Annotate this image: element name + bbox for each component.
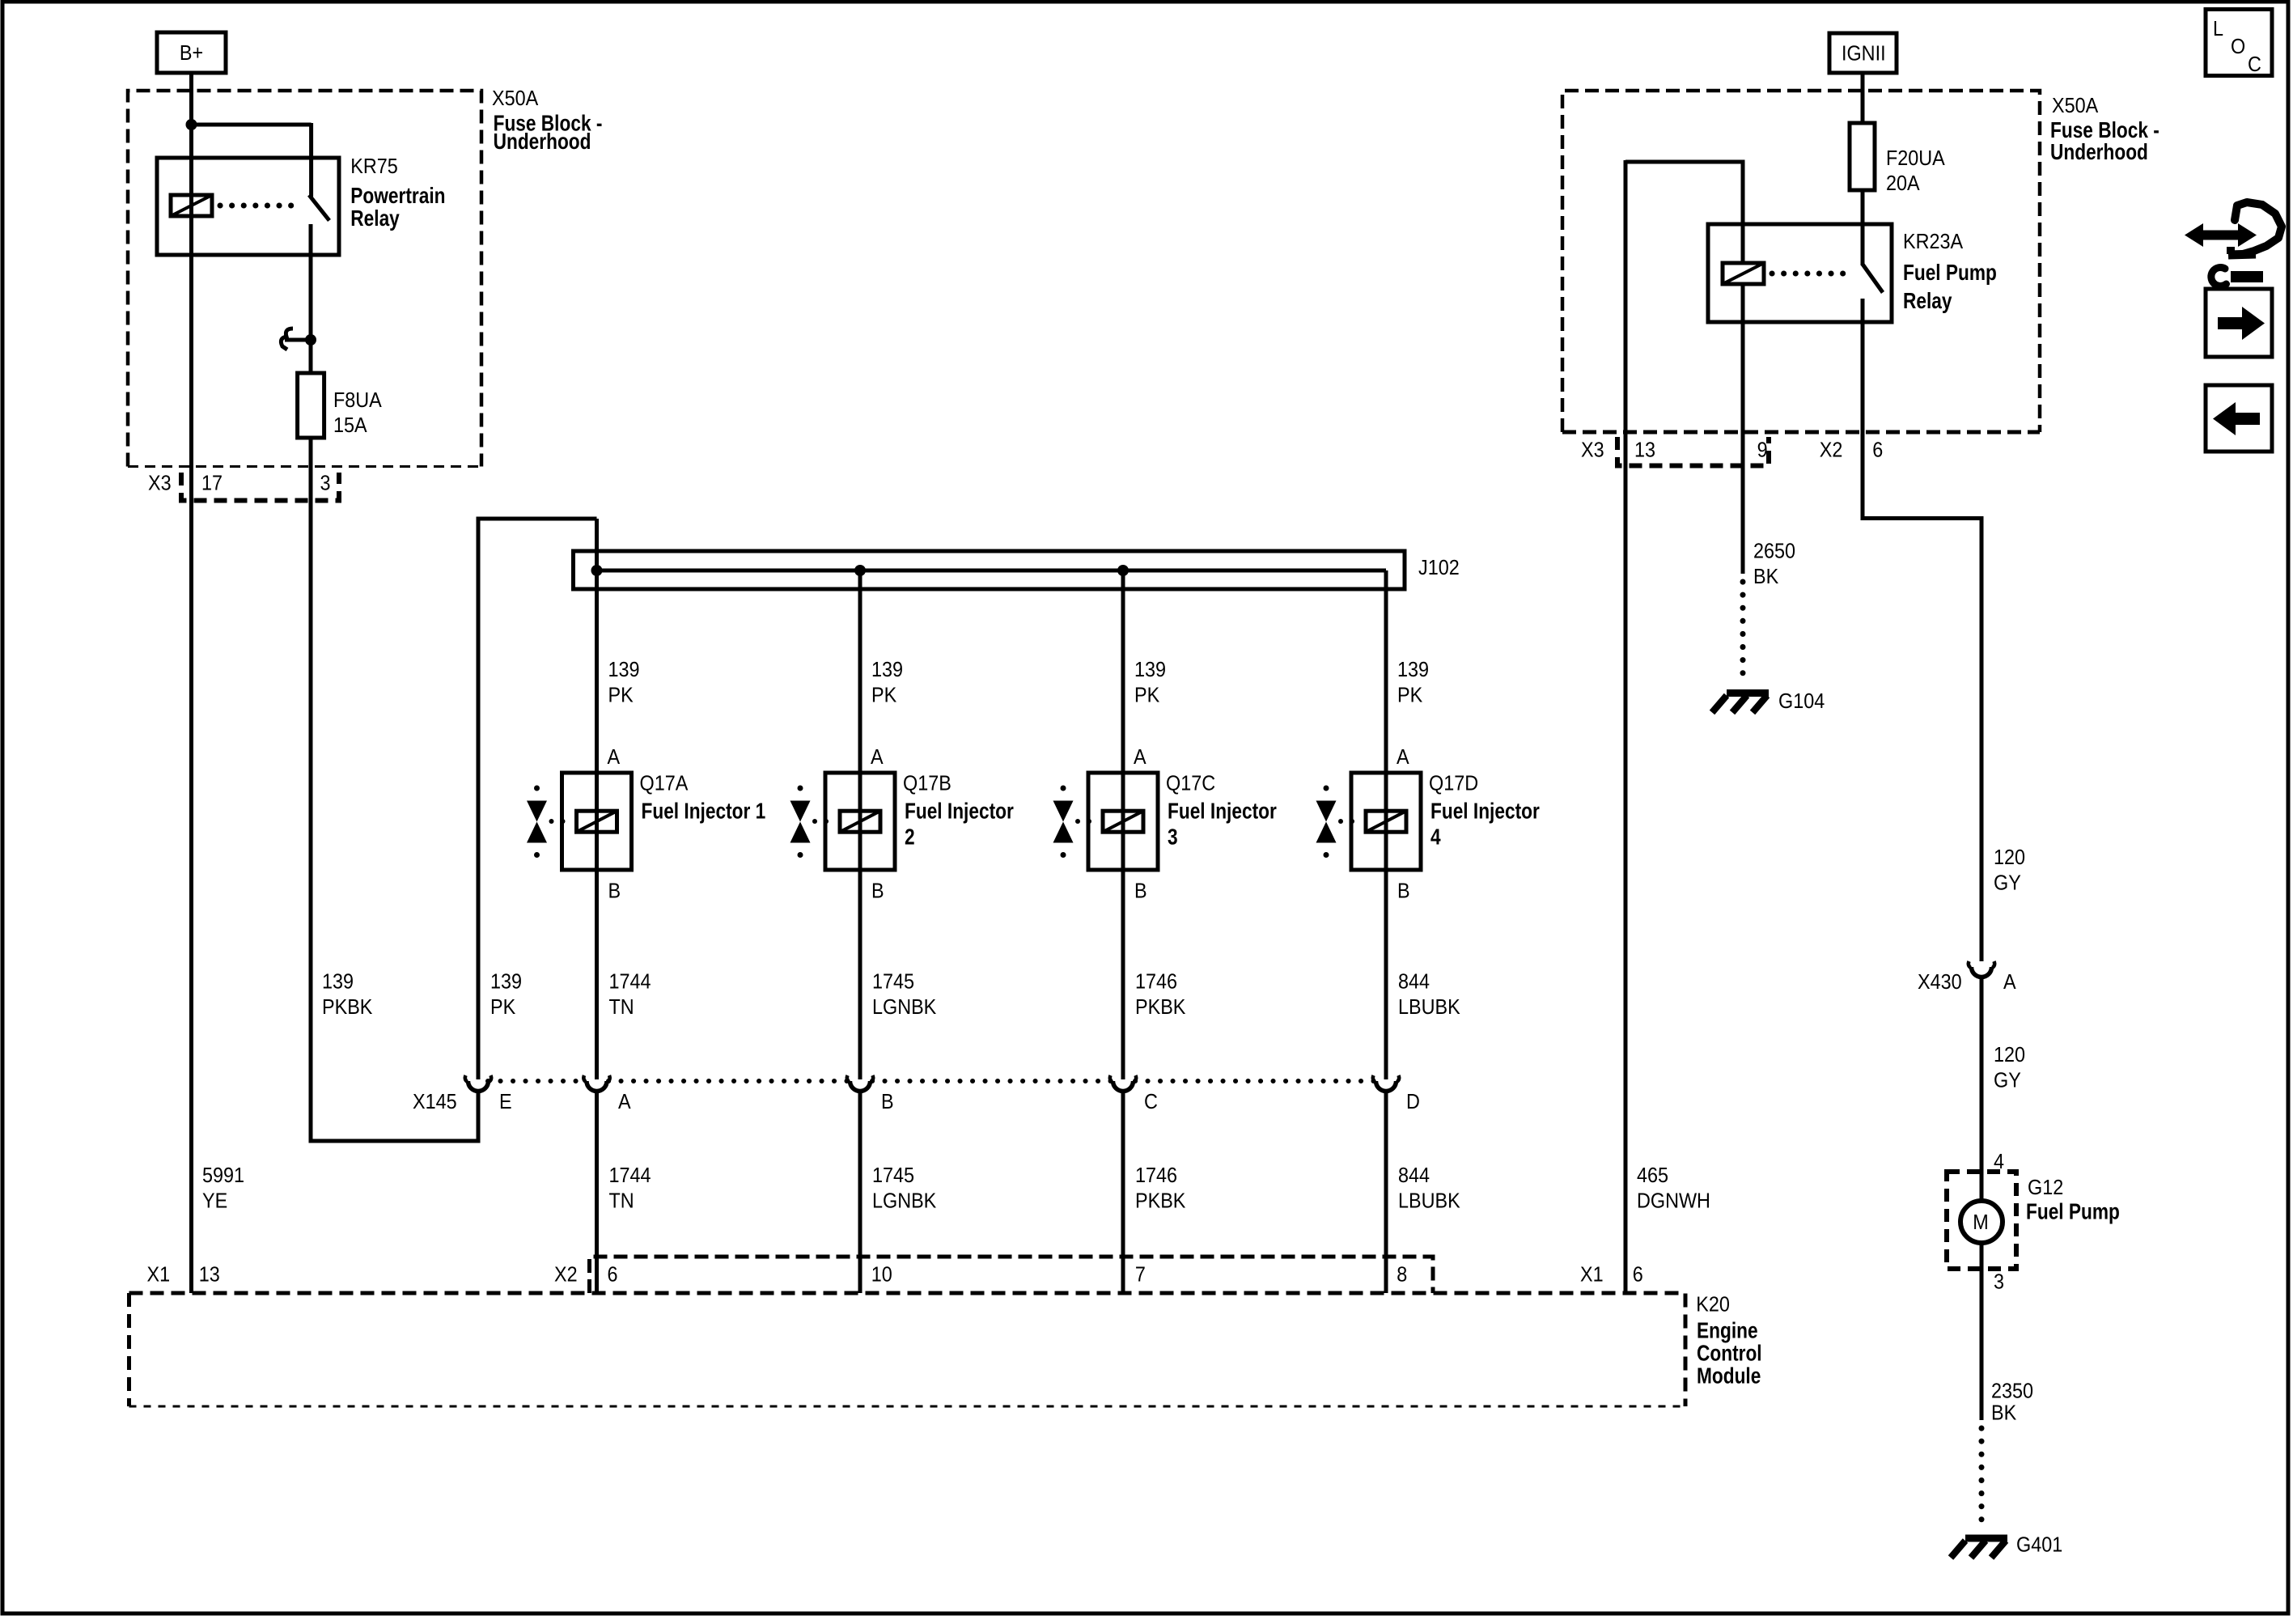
wire F8UA to jog [309, 438, 313, 1141]
injector Q17B dotted link [812, 819, 817, 824]
svg-text:F20UA: F20UA [1886, 147, 1945, 170]
svg-text:X2: X2 [1820, 439, 1843, 461]
connector X3 (right) dashed bracket [1617, 437, 1769, 466]
ECM X2 connector bracket [590, 1257, 1434, 1293]
svg-text:1744: 1744 [609, 1164, 651, 1187]
fuse F8UA [298, 373, 324, 438]
label 844 LBUBK (upper) [1398, 970, 1460, 1019]
svg-text:GY: GY [1994, 1069, 2021, 1092]
svg-text:B: B [608, 880, 621, 902]
wire riser into J102 and injector 1 feed [595, 519, 599, 773]
fuse F20UA [1850, 123, 1875, 190]
injector Q17B coil [840, 811, 880, 832]
svg-text:Q17D: Q17D [1429, 772, 1478, 795]
svg-text:O: O [2231, 36, 2245, 58]
svg-text:5991: 5991 [202, 1164, 244, 1187]
svg-text:9: 9 [1757, 439, 1768, 461]
svg-text:A: A [2003, 971, 2016, 994]
relay KR75 switch blade [309, 195, 329, 221]
svg-text:X3: X3 [148, 472, 172, 494]
wire injector 4 X145 to ECM [1384, 1091, 1388, 1293]
ECM K20 dashed box [129, 1293, 1686, 1406]
label 139 PK (riser) [490, 970, 522, 1019]
relay KR23A switch blade [1863, 265, 1883, 293]
wire injector 1 X145 to ECM [595, 1091, 599, 1293]
svg-text:L: L [2213, 18, 2223, 40]
label 1744 TN (lower) [609, 1164, 651, 1213]
svg-text:PKBK: PKBK [322, 996, 373, 1019]
label Fuel Pump Relay [1903, 261, 1997, 314]
svg-text:1745: 1745 [872, 970, 914, 993]
node J102 tap 1 [591, 565, 603, 576]
label 1745 LGNBK (upper) [872, 970, 937, 1019]
power symbol B+ [157, 32, 226, 73]
svg-text:G401: G401 [2016, 1533, 2062, 1556]
wire J102 tap to injector 3 [1121, 570, 1125, 773]
LOC locator box [2206, 10, 2272, 77]
label 139 PK (injector 1 feed) [608, 659, 640, 707]
injector Q17C dotted link [1075, 819, 1080, 824]
wire injector 4 B to X145 [1384, 870, 1388, 1079]
wire B+ to ECM X1-13 [189, 73, 193, 1293]
label Fuse Block - Underhood (left) [494, 111, 603, 154]
harness routing icon [2185, 202, 2282, 286]
node junction on B+ wire [186, 119, 197, 130]
svg-text:8: 8 [1397, 1263, 1407, 1286]
svg-text:139: 139 [490, 970, 522, 993]
svg-text:6: 6 [608, 1263, 618, 1286]
svg-text:10: 10 [871, 1263, 892, 1286]
fuel injector Q17A box [562, 773, 632, 870]
label 844 LBUBK (lower) [1398, 1164, 1460, 1213]
label Fuel Injector 3 [1168, 799, 1277, 850]
svg-text:PK: PK [1397, 684, 1423, 706]
label 1746 PKBK (upper) [1135, 970, 1186, 1019]
svg-text:M: M [1973, 1211, 1988, 1234]
svg-text:3: 3 [1168, 825, 1178, 850]
relay KR75 box [157, 158, 339, 255]
svg-text:KR75: KR75 [350, 155, 398, 178]
svg-text:X50A: X50A [2052, 95, 2099, 117]
svg-text:Relay: Relay [350, 206, 400, 231]
svg-text:Underhood: Underhood [2050, 140, 2148, 165]
svg-text:KR23A: KR23A [1903, 231, 1964, 253]
svg-text:Control: Control [1697, 1341, 1762, 1366]
relay KR75 coil [171, 195, 212, 216]
svg-text:A: A [1397, 746, 1409, 769]
svg-text:6: 6 [1872, 439, 1883, 461]
svg-text:139: 139 [1397, 659, 1429, 681]
svg-text:17: 17 [201, 472, 223, 494]
svg-text:Engine: Engine [1697, 1318, 1758, 1343]
svg-text:A: A [608, 746, 621, 769]
wire fuel pump to G401 [1980, 1243, 1984, 1420]
wire injector 1 B to X145 [595, 870, 599, 1079]
ground G401 [1965, 1535, 2007, 1542]
svg-text:139: 139 [322, 970, 354, 993]
svg-text:IGNII: IGNII [1842, 42, 1886, 65]
relay KR23A coil [1723, 263, 1764, 284]
wire 139 PK riser upper (corner to X145 E) [478, 519, 597, 1079]
label 120 GY (lower) [1994, 1044, 2025, 1092]
fuse block X50A (left) dashed box [128, 91, 481, 467]
svg-text:BK: BK [1991, 1401, 2017, 1424]
next page arrow icon [2206, 289, 2272, 357]
svg-text:A: A [618, 1091, 631, 1113]
connector X430 terminal A [1972, 967, 1992, 977]
svg-text:Relay: Relay [1903, 289, 1952, 314]
svg-text:139: 139 [1134, 659, 1166, 681]
connector X145 terminal D [1376, 1081, 1397, 1092]
injector Q17D dotted link [1338, 819, 1343, 824]
svg-text:YE: YE [202, 1189, 227, 1212]
svg-text:B+: B+ [180, 42, 203, 65]
svg-text:PK: PK [1134, 684, 1160, 706]
label 2350 BK [1991, 1380, 2033, 1424]
svg-text:Fuel Pump: Fuel Pump [2026, 1199, 2120, 1224]
J102 internal bus line [597, 569, 1387, 573]
svg-text:X50A: X50A [492, 87, 539, 110]
dotted lead to G401 [1979, 1428, 1985, 1532]
svg-text:Q17B: Q17B [903, 772, 952, 795]
svg-text:1744: 1744 [609, 970, 651, 993]
label 139 PKBK [322, 970, 373, 1019]
svg-text:4: 4 [1430, 825, 1441, 850]
svg-text:BK: BK [1753, 566, 1779, 588]
injector Q17C coil [1103, 811, 1143, 832]
connector X145 terminal E [468, 1081, 489, 1092]
label 1744 TN (upper) [609, 970, 651, 1019]
svg-text:X3: X3 [1581, 439, 1604, 461]
svg-text:LBUBK: LBUBK [1398, 996, 1460, 1019]
svg-text:A: A [1134, 746, 1146, 769]
wire KR23A coil to G104 [1741, 284, 1745, 574]
label 2650 BK [1753, 540, 1795, 588]
svg-text:G104: G104 [1778, 690, 1825, 713]
injector Q17D valve symbol [1316, 801, 1337, 822]
svg-text:3: 3 [1994, 1270, 2004, 1293]
node J102 tap 3 [1117, 565, 1129, 576]
wire J102 tap to injector 4 [1384, 570, 1388, 773]
connector X3 (left) dashed bracket [181, 473, 339, 501]
injector Q17D wire through box [1384, 773, 1388, 870]
svg-text:Fuel Injector: Fuel Injector [905, 799, 1014, 824]
svg-text:E: E [499, 1091, 512, 1113]
svg-text:B: B [871, 880, 884, 902]
svg-text:LGNBK: LGNBK [872, 1189, 937, 1212]
svg-text:465: 465 [1637, 1164, 1668, 1187]
wire injector 2 B to X145 [858, 870, 863, 1079]
svg-text:C: C [2248, 53, 2261, 76]
svg-text:X145: X145 [413, 1091, 457, 1113]
svg-text:Module: Module [1697, 1363, 1761, 1389]
wire injector 3 B to X145 [1121, 870, 1125, 1079]
injector Q17A wire through box [595, 773, 599, 870]
label 120 GY (upper) [1994, 846, 2025, 895]
label F20UA 20A [1886, 147, 1945, 195]
wire 139 PK riser lower (X145 E to jog) [477, 1091, 481, 1143]
svg-text:PKBK: PKBK [1135, 996, 1186, 1019]
label 1745 LGNBK (lower) [872, 1164, 937, 1213]
svg-text:Fuel Injector: Fuel Injector [1168, 799, 1277, 824]
svg-text:D: D [1406, 1091, 1420, 1113]
fuse block X50A (right) dashed box [1562, 91, 2040, 432]
svg-text:Q17A: Q17A [640, 772, 689, 795]
svg-text:Fuel Injector: Fuel Injector [1430, 799, 1540, 824]
connector X145 terminal B [850, 1081, 871, 1092]
svg-text:3: 3 [320, 472, 331, 494]
injector Q17D coil [1366, 811, 1406, 832]
fuel injector Q17B box [825, 773, 895, 870]
svg-text:A: A [871, 746, 884, 769]
injector Q17B valve symbol [790, 801, 811, 822]
svg-text:139: 139 [608, 659, 640, 681]
wire injector 2 X145 to ECM [858, 1091, 863, 1293]
svg-text:X2: X2 [554, 1263, 578, 1286]
svg-text:PKBK: PKBK [1135, 1189, 1186, 1212]
node J102 tap 2 [854, 565, 866, 576]
svg-text:K20: K20 [1696, 1294, 1730, 1317]
wire X430 to fuel pump [1980, 977, 1984, 1202]
svg-text:B: B [1134, 880, 1147, 902]
svg-text:139: 139 [871, 659, 903, 681]
svg-text:Underhood: Underhood [494, 129, 591, 155]
injector Q17C valve symbol [1053, 801, 1074, 822]
injector Q17A dotted link [549, 819, 554, 824]
label Fuse Block - Underhood (right) [2050, 118, 2159, 165]
wire KR75 switch to fuse F8UA [309, 224, 313, 373]
previous page arrow icon [2206, 385, 2272, 452]
svg-text:15A: 15A [333, 414, 367, 437]
svg-text:PK: PK [490, 996, 516, 1019]
svg-text:B: B [881, 1091, 894, 1113]
svg-text:20A: 20A [1886, 172, 1920, 195]
svg-text:2: 2 [905, 825, 915, 850]
relay KR75 coil-switch dotted link [220, 203, 303, 209]
label 1746 PKBK (lower) [1135, 1164, 1186, 1213]
wire F20UA to KR23A switch [1861, 190, 1865, 265]
svg-text:F8UA: F8UA [333, 389, 382, 412]
label F8UA 15A [333, 389, 382, 437]
svg-text:X1: X1 [147, 1263, 171, 1286]
fuel injector Q17D box [1351, 773, 1421, 870]
svg-text:2650: 2650 [1753, 540, 1795, 562]
svg-text:GY: GY [1994, 871, 2021, 894]
wire injector 3 X145 to ECM [1121, 1091, 1125, 1293]
label Fuel Injector 2 [905, 799, 1014, 850]
svg-text:1745: 1745 [872, 1164, 914, 1187]
power symbol IGNII [1829, 33, 1897, 73]
label 465 DGNWH [1637, 1164, 1710, 1213]
connector X145 terminal A [587, 1081, 607, 1092]
dotted lead to G104 [1740, 582, 1746, 685]
svg-text:844: 844 [1398, 1164, 1430, 1187]
label 139 PK (injector 2 feed) [871, 659, 903, 707]
svg-text:1746: 1746 [1135, 970, 1177, 993]
ground G104 [1727, 689, 1769, 697]
wire 465 DGNWH (ECM to pin 13) [1624, 160, 1628, 1293]
injector Q17B wire through box [858, 773, 863, 870]
injector Q17A coil [577, 811, 617, 832]
label Powertrain Relay [350, 184, 445, 231]
svg-text:7: 7 [1135, 1263, 1146, 1286]
svg-text:13: 13 [1634, 439, 1655, 461]
svg-text:120: 120 [1994, 1044, 2025, 1066]
svg-text:LBUBK: LBUBK [1398, 1189, 1460, 1212]
svg-text:LGNBK: LGNBK [872, 996, 937, 1019]
svg-text:13: 13 [199, 1263, 220, 1286]
splice tap symbol [281, 329, 316, 350]
svg-text:Fuel Pump: Fuel Pump [1903, 261, 1997, 286]
wire jog to 139 PK riser [309, 1139, 479, 1143]
label Engine Control Module [1697, 1318, 1762, 1389]
svg-text:G12: G12 [2028, 1177, 2063, 1199]
svg-text:Fuel Injector 1: Fuel Injector 1 [642, 799, 766, 824]
svg-text:X430: X430 [1918, 971, 1962, 994]
connector X145 terminal C [1113, 1081, 1134, 1092]
svg-text:120: 120 [1994, 846, 2025, 869]
svg-text:Powertrain: Powertrain [350, 184, 445, 209]
svg-text:1746: 1746 [1135, 1164, 1177, 1187]
relay KR23A coil feed wire [1625, 162, 1743, 263]
label 139 PK (injector 3 feed) [1134, 659, 1166, 707]
svg-text:X1: X1 [1580, 1263, 1604, 1286]
splice pack J102 box [574, 551, 1405, 589]
svg-text:TN: TN [609, 996, 634, 1019]
svg-text:TN: TN [609, 1189, 634, 1212]
connector X145 dotted line [488, 1079, 585, 1083]
wire junction to relay switch [189, 123, 312, 197]
svg-text:844: 844 [1398, 970, 1430, 993]
svg-text:PK: PK [871, 684, 897, 706]
svg-text:Q17C: Q17C [1166, 772, 1215, 795]
wire J102 tap to injector 2 [858, 570, 863, 773]
label 139 PK (injector 4 feed) [1397, 659, 1429, 707]
svg-text:2350: 2350 [1991, 1380, 2033, 1402]
relay KR23A box [1708, 224, 1892, 322]
label Fuel Injector 4 [1430, 799, 1540, 850]
svg-text:C: C [1144, 1091, 1158, 1113]
svg-text:6: 6 [1633, 1263, 1643, 1286]
fuel pump motor symbol [1960, 1201, 2003, 1243]
svg-text:J102: J102 [1418, 557, 1460, 579]
svg-text:PK: PK [608, 684, 634, 706]
relay KR23A dotted link [1772, 271, 1853, 277]
label 5991 YE [202, 1164, 244, 1213]
svg-text:DGNWH: DGNWH [1637, 1189, 1710, 1212]
fuel pump G12 dashed box [1947, 1172, 2016, 1269]
svg-text:B: B [1397, 880, 1410, 902]
wire KR23A switch to X430 [1863, 299, 1981, 961]
wire IGNII to fuse F20UA [1861, 73, 1865, 123]
fuel injector Q17C box [1088, 773, 1158, 870]
injector Q17C wire through box [1121, 773, 1125, 870]
injector Q17A valve symbol [527, 801, 547, 822]
